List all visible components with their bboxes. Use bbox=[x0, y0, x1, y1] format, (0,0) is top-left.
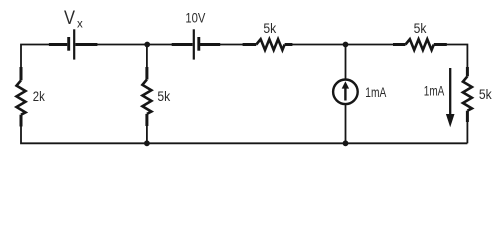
wire node A to battery 10V bbox=[147, 44, 172, 46]
resistor R3 2k vertical left bbox=[17, 67, 26, 127]
wire resistor R1 to node B bbox=[292, 44, 346, 46]
svg-text:x: x bbox=[77, 18, 83, 30]
label 5k resistor R5 bbox=[479, 86, 493, 102]
node C junction dot bottom middle bbox=[144, 140, 150, 146]
battery V1 long plate bbox=[193, 29, 195, 59]
node B junction dot bbox=[343, 42, 349, 48]
resistor R5 5k vertical right bbox=[463, 67, 472, 143]
current source I1 1mA bbox=[333, 80, 358, 105]
resistor R2 5k horizontal bbox=[393, 39, 447, 50]
svg-text:5k: 5k bbox=[479, 86, 493, 102]
wire bottom middle segment bbox=[147, 142, 346, 144]
battery V1 short plate bbox=[197, 37, 200, 51]
wire battery Vx to node A bbox=[97, 44, 147, 46]
current arrow 1mA right branch bbox=[446, 68, 455, 127]
svg-text:5k: 5k bbox=[414, 21, 427, 36]
wire current source to bottom node D bbox=[345, 104, 347, 143]
node A junction dot bbox=[144, 42, 150, 48]
label 5k resistor R2 bbox=[414, 21, 427, 36]
resistor R4 5k vertical middle bbox=[142, 45, 151, 144]
label 10V bbox=[185, 10, 205, 25]
svg-text:1mA: 1mA bbox=[365, 85, 386, 100]
svg-text:2k: 2k bbox=[33, 88, 46, 104]
wire battery 10V to resistor R1 bbox=[220, 44, 243, 46]
battery V1 10V left lead bbox=[172, 43, 193, 46]
label 1mA right branch bbox=[424, 83, 445, 98]
battery Vx left lead bbox=[49, 43, 67, 46]
label 5k resistor R1 bbox=[263, 21, 276, 36]
battery Vx right lead bbox=[75, 43, 97, 46]
svg-text:10V: 10V bbox=[185, 10, 205, 25]
label Vx bbox=[64, 8, 83, 30]
svg-text:V: V bbox=[64, 8, 75, 29]
svg-text:5k: 5k bbox=[263, 21, 276, 36]
battery V1 right lead bbox=[200, 43, 220, 46]
wire node B to resistor R2 bbox=[346, 44, 394, 46]
wire bottom right segment bbox=[346, 142, 468, 144]
wire 2k bottom to corner bbox=[21, 126, 147, 143]
wire top-left segment bbox=[21, 45, 50, 68]
label 5k resistor R4 bbox=[157, 88, 171, 104]
node D junction dot bottom bbox=[343, 140, 349, 146]
wire top-right corner bbox=[447, 45, 468, 68]
battery Vx long plate bbox=[73, 29, 75, 59]
svg-text:1mA: 1mA bbox=[424, 83, 445, 98]
svg-text:5k: 5k bbox=[157, 88, 171, 104]
label 1mA current source bbox=[365, 85, 386, 100]
label 2k resistor R3 bbox=[33, 88, 46, 104]
battery Vx short plate bbox=[67, 37, 70, 51]
resistor R1 5k horizontal bbox=[243, 39, 293, 50]
wire node B down to current source bbox=[345, 45, 347, 80]
